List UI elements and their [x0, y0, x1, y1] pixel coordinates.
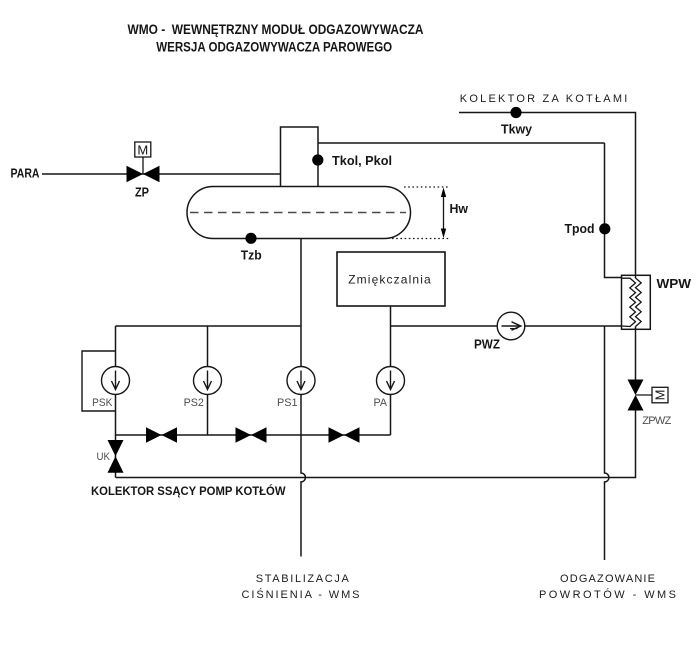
- Hw dimension arrow: [443, 192, 445, 233]
- svg-text:PWZ: PWZ: [474, 337, 500, 352]
- wire ZPWZ down and return line: [116, 411, 636, 478]
- wire kolektor za kotlami: [459, 113, 636, 279]
- svg-text:M: M: [137, 143, 148, 158]
- wire PARA steam line: [42, 173, 281, 175]
- svg-text:Tzb: Tzb: [241, 247, 262, 262]
- svg-text:Tpod: Tpod: [565, 221, 595, 236]
- wire WPW outlet down to ZPWZ: [635, 327, 637, 381]
- heat exchanger WPW: [622, 275, 651, 329]
- valve ZPWZ (motor valve): [628, 380, 669, 411]
- wire PS2 drop: [207, 326, 209, 435]
- wire pump outlet line: [116, 434, 391, 436]
- wire softener drop to PA: [390, 306, 392, 435]
- pump PS1: [287, 367, 315, 395]
- valve between PS2 and PS1: [236, 427, 267, 442]
- wire suction manifold: [116, 325, 302, 327]
- PSK frame box: [82, 351, 116, 411]
- valve between PSK and PS2: [146, 427, 177, 442]
- svg-text:PS2: PS2: [184, 397, 204, 409]
- svg-text:WMO - WEWNĘTRZNY MODUŁ ODGAZO: WMO - WEWNĘTRZNY MODUŁ ODGAZOWYWACZA: [128, 22, 424, 37]
- pump PA: [377, 367, 405, 395]
- pump PSK: [102, 367, 130, 395]
- node Tzb: [245, 233, 256, 244]
- svg-text:PARA: PARA: [11, 166, 40, 181]
- valve between PS1 and PA: [329, 427, 360, 442]
- node Tkol, Pkol: [312, 154, 323, 165]
- svg-text:PS1: PS1: [277, 397, 298, 409]
- pump PS2: [194, 367, 222, 395]
- node Tpod: [599, 223, 610, 234]
- deaerator tank: [187, 187, 411, 239]
- svg-text:Tkwy: Tkwy: [501, 122, 533, 137]
- node Tkwy: [510, 107, 521, 118]
- valve ZP (motor valve on steam line): [127, 142, 160, 182]
- Hw dimension dotted lines: [404, 186, 450, 188]
- svg-text:PSK: PSK: [92, 397, 113, 409]
- wire right WMS downline with hop: [605, 326, 609, 560]
- svg-text:Tkol, Pkol: Tkol, Pkol: [332, 153, 392, 168]
- wire PWZ feed line: [391, 325, 622, 327]
- svg-text:ZPWZ: ZPWZ: [642, 415, 671, 427]
- svg-text:PA: PA: [374, 397, 388, 409]
- svg-text:WERSJA ODGAZOWYWACZA PAROWEGO: WERSJA ODGAZOWYWACZA PAROWEGO: [156, 40, 392, 55]
- svg-text:UK: UK: [97, 451, 111, 463]
- svg-text:Zmiękczalnia: Zmiękczalnia: [348, 272, 431, 286]
- wire PSK drop: [115, 326, 117, 478]
- svg-text:M: M: [653, 390, 668, 401]
- svg-text:KOLEKTOR SSĄCY POMP KOTŁÓW: KOLEKTOR SSĄCY POMP KOTŁÓW: [91, 483, 286, 498]
- box Zmiekczalnia: [337, 252, 445, 306]
- wire tank down to WMS with hop: [301, 239, 305, 557]
- wire column to kolektor: [318, 142, 605, 144]
- svg-text:ODGAZOWANIE: ODGAZOWANIE: [560, 573, 655, 585]
- svg-text:ZP: ZP: [135, 185, 149, 200]
- wire down to WPW inlet: [605, 143, 622, 278]
- svg-text:STABILIZACJA: STABILIZACJA: [256, 573, 350, 585]
- svg-text:CIŚNIENIA - WMS: CIŚNIENIA - WMS: [242, 588, 360, 601]
- pump PWZ: [497, 312, 525, 340]
- water level dashed line: [190, 212, 406, 214]
- valve UK: [108, 440, 124, 473]
- svg-text:WPW: WPW: [657, 276, 692, 291]
- deaerator column: [281, 127, 319, 187]
- svg-text:Hw: Hw: [450, 201, 469, 216]
